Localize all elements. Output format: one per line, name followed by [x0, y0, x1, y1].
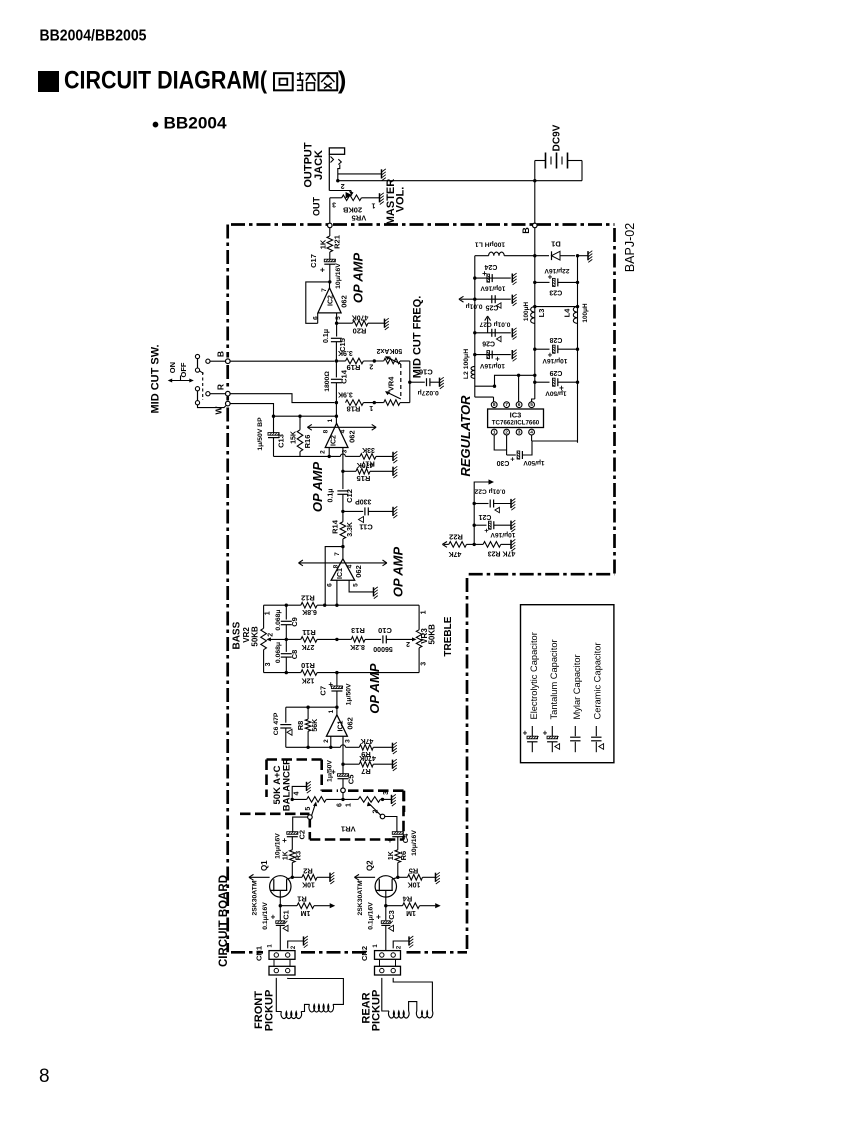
- svg-text:DC9V: DC9V: [552, 124, 563, 151]
- svg-text:0.027μ: 0.027μ: [418, 389, 439, 396]
- svg-text:C13: C13: [276, 434, 285, 448]
- svg-text:1μ/50V: 1μ/50V: [345, 683, 352, 705]
- svg-text:C8: C8: [290, 650, 299, 660]
- svg-text:C30: C30: [496, 459, 509, 466]
- svg-text:+: +: [523, 729, 528, 738]
- svg-text:R21: R21: [333, 235, 342, 249]
- svg-text:IC1: IC1: [337, 720, 344, 731]
- svg-text:7: 7: [321, 288, 328, 292]
- svg-text:R10: R10: [301, 661, 315, 670]
- svg-text:1μ/50V: 1μ/50V: [327, 760, 334, 782]
- svg-text:56K: 56K: [312, 719, 319, 732]
- svg-text:1800Ω: 1800Ω: [324, 371, 331, 392]
- svg-text:3: 3: [383, 791, 390, 795]
- svg-text:50KB: 50KB: [428, 624, 437, 645]
- svg-text:B: B: [521, 227, 531, 234]
- svg-text:+: +: [484, 526, 489, 535]
- svg-text:10μ/16V: 10μ/16V: [490, 531, 516, 538]
- svg-text:R18: R18: [347, 405, 361, 414]
- svg-text:100μH: 100μH: [523, 302, 530, 322]
- svg-text:2: 2: [406, 640, 410, 647]
- svg-text:B: B: [215, 351, 225, 357]
- svg-text:C24: C24: [484, 263, 497, 270]
- svg-text:10μ/16V: 10μ/16V: [542, 357, 568, 364]
- svg-text:0.1μ: 0.1μ: [328, 488, 335, 502]
- svg-text:3.3K: 3.3K: [347, 522, 354, 537]
- svg-text:12K: 12K: [302, 677, 315, 684]
- svg-text:1K: 1K: [388, 851, 395, 860]
- svg-text:Q2: Q2: [366, 860, 375, 871]
- svg-text:8: 8: [39, 1066, 50, 1087]
- svg-text:10K: 10K: [302, 880, 315, 887]
- svg-text:OFF: OFF: [179, 362, 188, 377]
- svg-text:PICKUP: PICKUP: [371, 990, 383, 1032]
- svg-text:R12: R12: [301, 594, 315, 603]
- svg-text:+: +: [543, 729, 548, 738]
- svg-text:R20: R20: [353, 327, 367, 336]
- svg-text:062: 062: [340, 295, 349, 308]
- svg-text:R11: R11: [302, 628, 315, 637]
- svg-text:C17: C17: [309, 254, 318, 268]
- svg-text:2: 2: [323, 739, 330, 743]
- svg-text:BAPJ-02: BAPJ-02: [623, 223, 637, 272]
- svg-text:3: 3: [518, 430, 521, 436]
- svg-text:47K: 47K: [449, 550, 462, 557]
- svg-text:6: 6: [518, 402, 521, 408]
- svg-text:R22: R22: [449, 532, 463, 541]
- svg-text:15K: 15K: [290, 431, 297, 444]
- svg-text:0.068μ: 0.068μ: [275, 609, 282, 630]
- svg-text:1: 1: [265, 611, 272, 615]
- svg-text:C2: C2: [298, 830, 307, 840]
- svg-text:47K: 47K: [361, 737, 374, 744]
- svg-text:0.01μ C27: 0.01μ C27: [479, 321, 510, 328]
- svg-text:CIRCUIT BOARD: CIRCUIT BOARD: [218, 875, 230, 967]
- svg-text:IC3: IC3: [510, 410, 522, 419]
- svg-text:1: 1: [493, 430, 496, 436]
- svg-text:R1: R1: [297, 894, 307, 903]
- svg-text:10μ/16V: 10μ/16V: [480, 284, 506, 291]
- svg-text:3.9K: 3.9K: [338, 391, 353, 398]
- svg-text:R13: R13: [351, 626, 365, 635]
- svg-text:C5: C5: [347, 775, 356, 785]
- svg-text:W: W: [213, 406, 223, 415]
- svg-text:6.8K: 6.8K: [302, 608, 317, 615]
- svg-text:0.1μ: 0.1μ: [323, 329, 330, 343]
- svg-text:22μ/16V: 22μ/16V: [544, 267, 570, 274]
- svg-text:10μ/16V: 10μ/16V: [274, 833, 281, 859]
- svg-text:OP AMP: OP AMP: [390, 547, 405, 598]
- svg-text:•: •: [152, 114, 159, 136]
- svg-text:+: +: [271, 913, 276, 922]
- svg-text:C4: C4: [401, 833, 410, 843]
- svg-text:C11: C11: [359, 523, 372, 532]
- svg-text:OP AMP: OP AMP: [367, 663, 382, 714]
- svg-text:Ceramic Capacitor: Ceramic Capacitor: [593, 643, 603, 720]
- svg-text:R15: R15: [357, 474, 371, 483]
- svg-text:PICKUP: PICKUP: [263, 990, 275, 1032]
- svg-text:33K: 33K: [362, 446, 375, 453]
- svg-text:JACK: JACK: [313, 150, 325, 180]
- svg-text:C25: C25: [485, 304, 498, 311]
- svg-text:Mylar Capacitor: Mylar Capacitor: [572, 654, 582, 719]
- svg-text:1K: 1K: [318, 239, 327, 249]
- svg-text:100μH L1: 100μH L1: [475, 240, 505, 247]
- svg-text:IC1: IC1: [337, 568, 344, 579]
- svg-text:2: 2: [320, 450, 327, 454]
- svg-text:TC7662/ICL7660: TC7662/ICL7660: [492, 420, 540, 427]
- svg-text:6: 6: [336, 803, 343, 807]
- svg-text:OUT: OUT: [311, 197, 321, 217]
- svg-text:C7: C7: [318, 686, 327, 696]
- svg-text:+: +: [320, 264, 325, 274]
- svg-text:3: 3: [421, 662, 428, 666]
- svg-text:): ): [338, 67, 346, 95]
- svg-text:VR4: VR4: [386, 376, 395, 391]
- svg-text:062: 062: [345, 717, 354, 730]
- svg-text:8: 8: [493, 402, 496, 408]
- svg-text:7: 7: [505, 402, 508, 408]
- svg-text:C3: C3: [387, 910, 396, 920]
- svg-text:2: 2: [267, 633, 274, 637]
- svg-text:10K: 10K: [408, 880, 421, 887]
- svg-text:BB2004: BB2004: [164, 113, 228, 132]
- svg-text:R8: R8: [296, 721, 305, 731]
- svg-text:1M: 1M: [300, 909, 310, 916]
- svg-text:1: 1: [327, 418, 334, 422]
- svg-text:062: 062: [348, 430, 357, 443]
- svg-text:1: 1: [421, 610, 428, 614]
- svg-text:1: 1: [328, 709, 335, 713]
- svg-text:47K R23: 47K R23: [488, 550, 516, 557]
- svg-text:1K: 1K: [283, 851, 290, 860]
- svg-text:MID CUT FREQ.: MID CUT FREQ.: [411, 296, 423, 379]
- svg-text:L3: L3: [537, 309, 546, 318]
- svg-text:3.9K: 3.9K: [338, 349, 353, 356]
- svg-text:100μH: 100μH: [582, 303, 589, 323]
- svg-text:C29: C29: [549, 369, 562, 376]
- svg-text:BALANCER: BALANCER: [281, 758, 292, 811]
- svg-text:8: 8: [323, 429, 330, 433]
- svg-text:50KB: 50KB: [251, 626, 260, 647]
- svg-text:3: 3: [265, 662, 272, 666]
- svg-text:50KAx2: 50KAx2: [376, 347, 402, 354]
- svg-text:0.01μ: 0.01μ: [466, 302, 483, 309]
- svg-text:L4: L4: [563, 308, 572, 318]
- svg-text:2SK30ATM: 2SK30ATM: [251, 880, 258, 915]
- svg-text:R19: R19: [347, 363, 361, 372]
- svg-text:R: R: [215, 384, 225, 390]
- svg-text:1μ/50V: 1μ/50V: [523, 459, 545, 466]
- svg-text:+: +: [388, 836, 393, 845]
- svg-text:10μ/16V: 10μ/16V: [335, 263, 342, 289]
- svg-text:8.2K: 8.2K: [350, 643, 365, 650]
- svg-text:10μ/16V: 10μ/16V: [479, 362, 505, 369]
- svg-text:ON: ON: [168, 362, 177, 373]
- svg-text:0.01μ C22: 0.01μ C22: [474, 487, 505, 494]
- svg-text:2: 2: [341, 182, 345, 189]
- svg-text:CN2: CN2: [360, 946, 369, 961]
- svg-text:6: 6: [327, 583, 334, 587]
- svg-text:REGULATOR: REGULATOR: [458, 395, 473, 477]
- svg-text:2: 2: [373, 809, 380, 813]
- svg-text:C28: C28: [549, 336, 562, 343]
- svg-text:C1: C1: [282, 910, 291, 920]
- svg-text:BB2004/BB2005: BB2004/BB2005: [40, 28, 147, 45]
- svg-text:3: 3: [332, 201, 336, 208]
- svg-text:5: 5: [530, 402, 533, 408]
- svg-text:VR5: VR5: [352, 213, 367, 222]
- svg-text:R3: R3: [294, 851, 303, 861]
- svg-text:TREBLE: TREBLE: [443, 616, 454, 656]
- svg-text:L2 100μH: L2 100μH: [463, 349, 470, 379]
- svg-text:VR2: VR2: [242, 627, 251, 643]
- svg-text:2SK30ATM: 2SK30ATM: [357, 880, 364, 915]
- svg-text:CIRCUIT DIAGRAM(: CIRCUIT DIAGRAM(: [64, 67, 268, 95]
- svg-text:C9: C9: [290, 617, 299, 627]
- svg-text:7: 7: [334, 552, 341, 556]
- svg-text:C26: C26: [482, 339, 495, 346]
- svg-text:10μ/16V: 10μ/16V: [411, 830, 418, 856]
- svg-text:1: 1: [371, 202, 375, 209]
- svg-text:+: +: [282, 836, 287, 845]
- svg-text:R6: R6: [399, 851, 408, 861]
- svg-text:4: 4: [293, 791, 300, 795]
- svg-text:R16: R16: [303, 435, 312, 449]
- svg-text:D1: D1: [551, 240, 561, 249]
- svg-text:56000: 56000: [373, 645, 393, 652]
- svg-text:Tantalum Capacitor: Tantalum Capacitor: [549, 639, 559, 719]
- svg-text:OP AMP: OP AMP: [310, 462, 325, 513]
- svg-text:470K: 470K: [357, 461, 374, 468]
- svg-text:+: +: [376, 913, 381, 922]
- svg-text:VOL.: VOL.: [395, 187, 407, 213]
- svg-text:1: 1: [369, 404, 373, 411]
- svg-text:VR1: VR1: [341, 824, 356, 833]
- svg-text:1M: 1M: [406, 909, 416, 916]
- svg-text:2: 2: [505, 430, 508, 436]
- svg-text:R2: R2: [303, 867, 313, 876]
- svg-text:8: 8: [333, 564, 340, 568]
- svg-text:0.068μ: 0.068μ: [275, 642, 282, 663]
- svg-text:MID CUT SW.: MID CUT SW.: [149, 344, 161, 413]
- svg-text:1μ/50V BP: 1μ/50V BP: [257, 417, 264, 451]
- svg-text:+: +: [510, 454, 515, 463]
- svg-text:C6 47P: C6 47P: [273, 712, 280, 735]
- svg-text:5: 5: [305, 807, 312, 811]
- svg-text:0.1μ/16V: 0.1μ/16V: [262, 902, 269, 930]
- svg-text:2: 2: [369, 363, 373, 370]
- svg-text:CN1: CN1: [254, 946, 263, 961]
- svg-text:C21: C21: [478, 513, 491, 520]
- svg-text:3: 3: [345, 739, 352, 743]
- svg-text:Electrolytic Capacitor: Electrolytic Capacitor: [529, 632, 539, 719]
- svg-text:Q1: Q1: [260, 860, 269, 871]
- svg-text:R14: R14: [330, 519, 339, 534]
- svg-text:5: 5: [352, 583, 359, 587]
- svg-text:1μ/50V: 1μ/50V: [545, 390, 567, 397]
- svg-text:4: 4: [340, 429, 347, 433]
- svg-text:+: +: [328, 680, 333, 689]
- svg-text:OP AMP: OP AMP: [350, 253, 365, 304]
- svg-text:C12: C12: [345, 489, 354, 503]
- svg-text:R5: R5: [409, 867, 419, 876]
- svg-text:330P: 330P: [355, 497, 372, 504]
- svg-text:062: 062: [354, 565, 363, 578]
- svg-text:1: 1: [345, 803, 352, 807]
- svg-text:IC2: IC2: [328, 295, 335, 306]
- svg-text:470K: 470K: [352, 313, 369, 320]
- svg-text:0.1μ/16V: 0.1μ/16V: [367, 902, 374, 930]
- svg-text:6: 6: [313, 316, 320, 320]
- svg-text:4: 4: [347, 564, 354, 568]
- svg-text:C23: C23: [549, 289, 562, 296]
- svg-text:27K: 27K: [302, 643, 315, 650]
- svg-text:R7: R7: [361, 767, 371, 776]
- svg-text:R4: R4: [402, 894, 412, 903]
- svg-text:C10: C10: [378, 626, 392, 635]
- svg-text:470K: 470K: [359, 754, 376, 761]
- svg-text:IC2: IC2: [331, 435, 338, 446]
- svg-text:4: 4: [530, 430, 533, 436]
